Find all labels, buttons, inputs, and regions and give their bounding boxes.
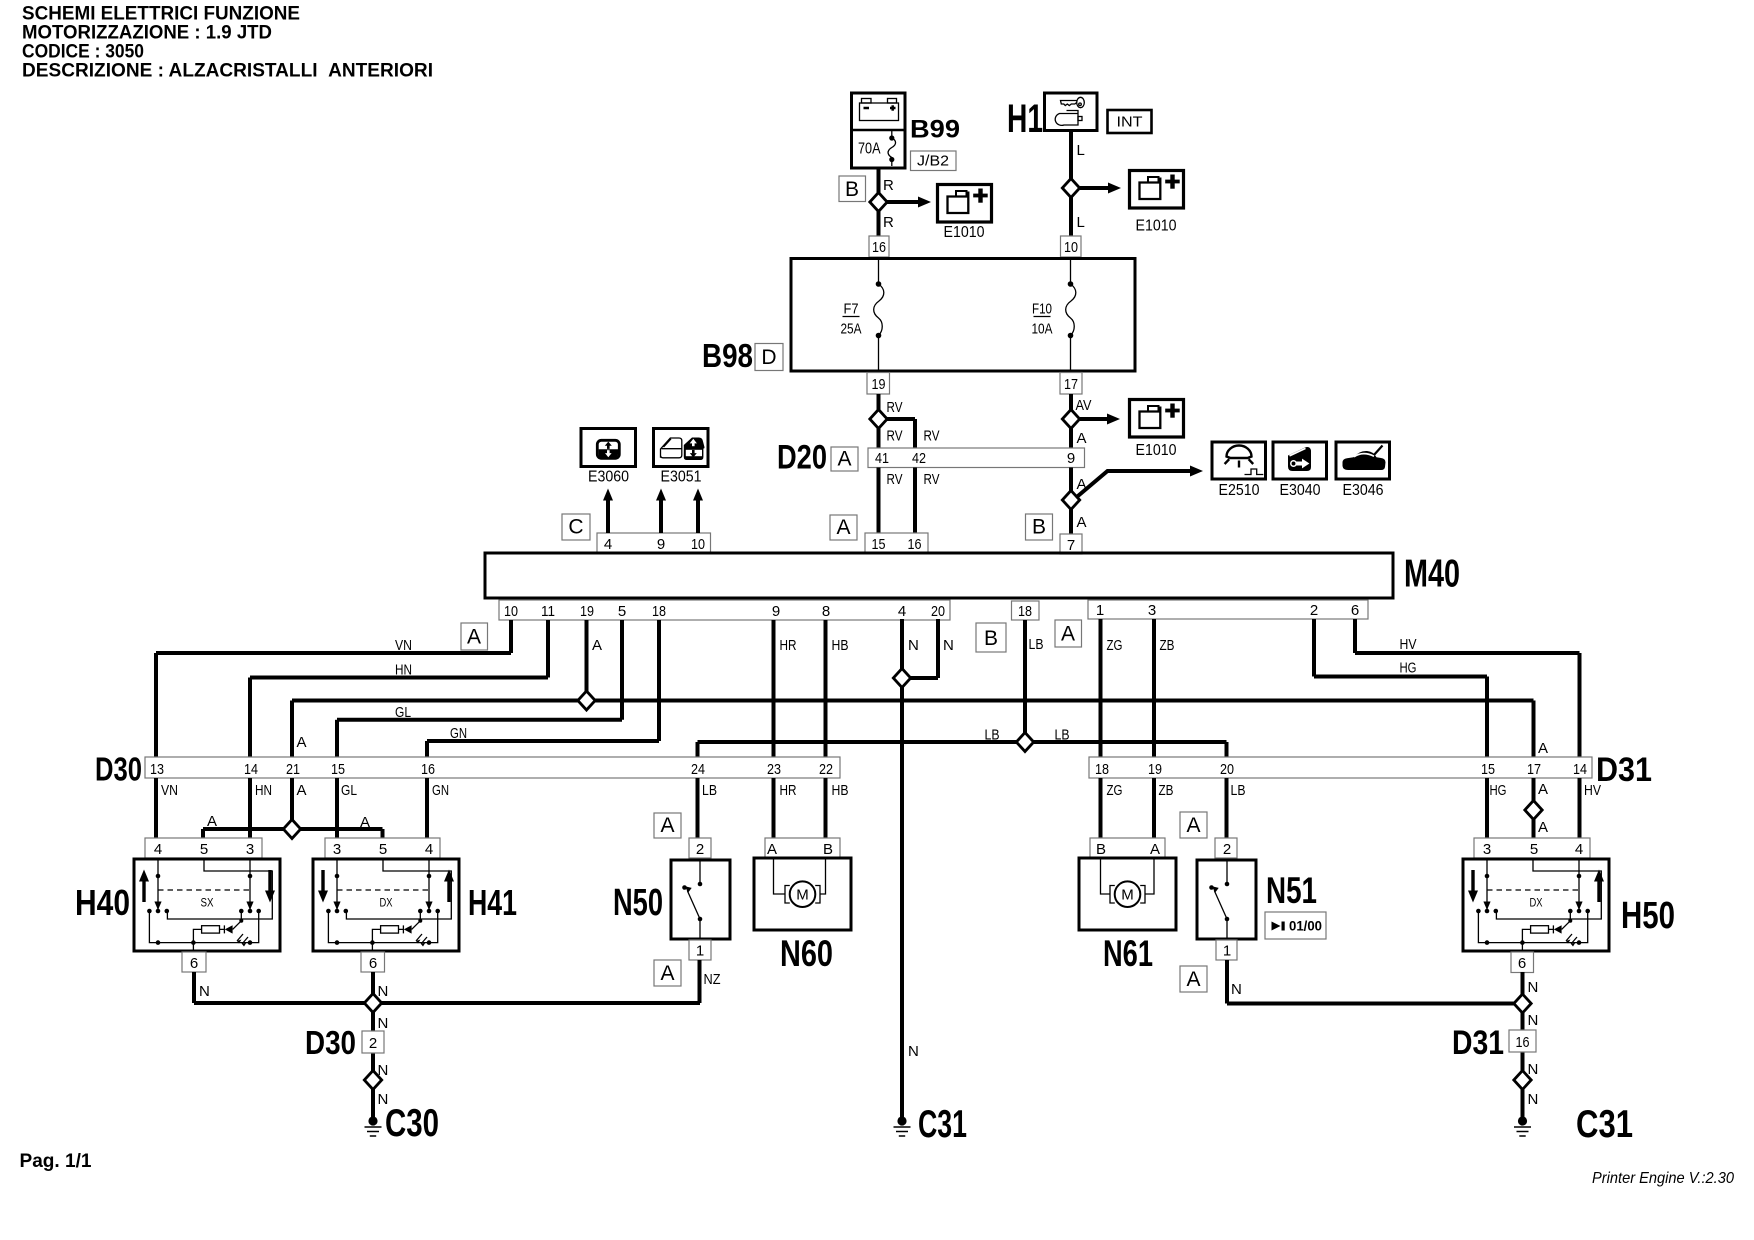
svg-text:H1: H1	[1007, 97, 1043, 141]
svg-text:N: N	[1528, 1012, 1539, 1029]
svg-text:LB: LB	[1055, 727, 1070, 744]
svg-text:A: A	[1150, 841, 1160, 858]
svg-text:HR: HR	[780, 637, 797, 654]
svg-text:HN: HN	[255, 782, 272, 799]
svg-text:B: B	[845, 178, 859, 201]
svg-text:HR: HR	[780, 782, 797, 799]
svg-text:16: 16	[421, 761, 435, 778]
svg-text:LB: LB	[1029, 636, 1044, 653]
svg-text:N: N	[943, 637, 954, 654]
svg-text:ZB: ZB	[1159, 782, 1174, 799]
svg-text:C: C	[568, 516, 583, 539]
svg-text:E1010: E1010	[1136, 218, 1177, 235]
svg-text:18: 18	[1018, 603, 1032, 620]
svg-text:16: 16	[872, 239, 886, 256]
svg-text:10: 10	[691, 536, 705, 553]
svg-text:DX: DX	[380, 896, 393, 910]
svg-text:13: 13	[150, 761, 164, 778]
svg-text:N: N	[1528, 1091, 1539, 1108]
svg-text:E1010: E1010	[944, 224, 985, 241]
svg-text:5: 5	[379, 841, 387, 858]
svg-text:01/00: 01/00	[1289, 918, 1322, 934]
svg-text:SX: SX	[201, 896, 214, 910]
svg-text:B99: B99	[910, 116, 960, 144]
svg-text:6: 6	[1351, 602, 1359, 619]
svg-text:3: 3	[1483, 841, 1491, 858]
svg-text:A: A	[1538, 781, 1548, 798]
svg-text:4: 4	[604, 536, 612, 553]
svg-text:A: A	[660, 962, 674, 985]
svg-text:D30: D30	[305, 1024, 356, 1061]
svg-text:M: M	[1121, 887, 1134, 904]
svg-text:15: 15	[872, 536, 886, 553]
svg-text:A: A	[767, 841, 777, 858]
svg-text:A: A	[467, 626, 481, 649]
svg-text:9: 9	[772, 603, 780, 620]
svg-text:E3060: E3060	[588, 469, 629, 486]
svg-text:D31: D31	[1452, 1024, 1504, 1062]
svg-text:B: B	[1032, 516, 1046, 539]
svg-text:N: N	[378, 1015, 389, 1032]
svg-text:14: 14	[244, 761, 258, 778]
svg-text:H41: H41	[468, 882, 517, 923]
svg-text:18: 18	[1095, 761, 1109, 778]
svg-text:RV: RV	[887, 399, 903, 416]
svg-text:SCHEMI ELETTRICI FUNZIONE: SCHEMI ELETTRICI FUNZIONE	[22, 4, 300, 25]
svg-text:9: 9	[657, 536, 665, 553]
svg-text:11: 11	[541, 603, 555, 620]
svg-text:10A: 10A	[1032, 321, 1053, 338]
svg-text:3: 3	[246, 841, 254, 858]
svg-text:2: 2	[369, 1035, 377, 1052]
svg-text:A: A	[836, 516, 850, 539]
svg-text:A: A	[1077, 430, 1087, 447]
svg-text:18: 18	[652, 603, 666, 620]
svg-text:RV: RV	[924, 471, 940, 488]
svg-text:DESCRIZIONE : ALZACRISTALLI A: DESCRIZIONE : ALZACRISTALLI ANTERIORI	[22, 61, 433, 82]
svg-text:1: 1	[1096, 602, 1104, 619]
svg-text:N: N	[1528, 979, 1539, 996]
svg-text:A: A	[297, 782, 307, 799]
svg-text:23: 23	[767, 761, 781, 778]
svg-text:L: L	[1077, 214, 1085, 231]
svg-text:DX: DX	[1530, 896, 1543, 910]
svg-text:6: 6	[369, 955, 377, 972]
svg-text:VN: VN	[395, 637, 412, 654]
svg-text:F7: F7	[844, 301, 859, 318]
svg-text:N: N	[199, 983, 210, 1000]
svg-text:4: 4	[898, 603, 906, 620]
svg-text:A: A	[1538, 740, 1548, 757]
svg-text:B: B	[1096, 841, 1106, 858]
svg-text:17: 17	[1064, 376, 1078, 393]
svg-text:B: B	[984, 627, 998, 650]
svg-text:MOTORIZZAZIONE : 1.9 JTD: MOTORIZZAZIONE : 1.9 JTD	[22, 23, 272, 44]
svg-text:70A: 70A	[858, 141, 881, 158]
svg-text:C30: C30	[385, 1102, 439, 1145]
svg-text:10: 10	[504, 603, 518, 620]
svg-text:C31: C31	[1576, 1103, 1633, 1146]
svg-text:M40: M40	[1404, 553, 1460, 596]
svg-text:A: A	[1186, 814, 1200, 837]
svg-text:10: 10	[1064, 239, 1078, 256]
svg-text:5: 5	[618, 603, 626, 620]
svg-text:7: 7	[1067, 537, 1075, 554]
svg-text:16: 16	[1516, 1034, 1530, 1051]
svg-text:C31: C31	[918, 1103, 967, 1146]
svg-text:N61: N61	[1103, 933, 1153, 974]
svg-text:42: 42	[912, 450, 926, 467]
svg-text:6: 6	[1518, 955, 1526, 972]
svg-text:5: 5	[200, 841, 208, 858]
svg-text:N: N	[378, 983, 389, 1000]
svg-text:H40: H40	[75, 882, 130, 923]
svg-text:A: A	[1077, 514, 1087, 531]
svg-text:H50: H50	[1621, 895, 1675, 937]
svg-text:HG: HG	[1400, 660, 1417, 677]
svg-text:N: N	[1528, 1061, 1539, 1078]
svg-text:25A: 25A	[841, 321, 862, 338]
svg-text:L: L	[1077, 142, 1085, 159]
svg-text:E2510: E2510	[1219, 482, 1260, 499]
svg-text:15: 15	[331, 761, 345, 778]
svg-text:1: 1	[696, 943, 704, 960]
svg-text:A: A	[660, 814, 674, 837]
svg-text:RV: RV	[887, 471, 903, 488]
svg-text:4: 4	[1575, 841, 1583, 858]
svg-text:16: 16	[908, 536, 922, 553]
svg-text:22: 22	[819, 761, 833, 778]
svg-text:D: D	[761, 346, 776, 369]
svg-text:B98: B98	[702, 337, 753, 374]
svg-text:6: 6	[190, 955, 198, 972]
svg-text:24: 24	[691, 761, 705, 778]
svg-text:RV: RV	[924, 428, 940, 445]
svg-text:N: N	[908, 637, 919, 654]
svg-text:A: A	[837, 448, 851, 471]
svg-text:N50: N50	[613, 882, 663, 924]
svg-text:M: M	[796, 887, 809, 904]
svg-text:A: A	[592, 637, 602, 654]
svg-text:N: N	[1231, 981, 1242, 998]
svg-text:E3040: E3040	[1280, 482, 1321, 499]
svg-text:E3051: E3051	[661, 469, 702, 486]
svg-text:CODICE : 3050: CODICE : 3050	[22, 42, 144, 63]
svg-text:E1010: E1010	[1136, 442, 1177, 459]
svg-text:20: 20	[931, 603, 945, 620]
svg-text:19: 19	[872, 376, 886, 393]
svg-text:3: 3	[1148, 602, 1156, 619]
svg-text:A: A	[1538, 819, 1548, 836]
svg-text:15: 15	[1481, 761, 1495, 778]
svg-text:2: 2	[696, 841, 704, 858]
svg-text:A: A	[207, 813, 217, 830]
svg-text:9: 9	[1067, 450, 1075, 467]
svg-text:A: A	[1061, 623, 1075, 646]
svg-text:D30: D30	[95, 751, 142, 788]
svg-text:2: 2	[1310, 602, 1318, 619]
svg-text:D31: D31	[1596, 751, 1652, 789]
svg-text:GN: GN	[450, 725, 467, 742]
svg-text:GL: GL	[341, 782, 357, 799]
svg-text:HB: HB	[832, 782, 849, 799]
svg-text:RV: RV	[887, 428, 903, 445]
svg-text:8: 8	[822, 603, 830, 620]
svg-text:VN: VN	[161, 782, 178, 799]
svg-text:Pag. 1/1: Pag. 1/1	[20, 1151, 92, 1172]
svg-text:21: 21	[286, 761, 300, 778]
svg-text:5: 5	[1530, 841, 1538, 858]
svg-text:19: 19	[1148, 761, 1162, 778]
svg-text:LB: LB	[702, 782, 717, 799]
svg-text:A: A	[297, 734, 307, 751]
svg-text:4: 4	[154, 841, 162, 858]
svg-text:F10: F10	[1032, 301, 1052, 318]
svg-text:ZG: ZG	[1107, 782, 1123, 799]
svg-text:A: A	[360, 814, 370, 831]
svg-text:2: 2	[1223, 841, 1231, 858]
svg-text:D20: D20	[777, 439, 827, 477]
svg-text:N51: N51	[1266, 870, 1317, 911]
svg-text:GL: GL	[395, 704, 411, 721]
svg-text:LB: LB	[1231, 782, 1246, 799]
svg-text:Printer Engine V.:2.30: Printer Engine V.:2.30	[1592, 1170, 1734, 1187]
svg-text:LB: LB	[985, 727, 1000, 744]
svg-text:41: 41	[875, 450, 889, 467]
svg-text:ZG: ZG	[1107, 637, 1123, 654]
svg-text:R: R	[883, 177, 894, 194]
svg-text:17: 17	[1527, 761, 1541, 778]
svg-text:19: 19	[580, 603, 594, 620]
svg-text:R: R	[883, 214, 894, 231]
svg-text:4: 4	[425, 841, 433, 858]
svg-text:N60: N60	[780, 933, 833, 974]
svg-text:AV: AV	[1076, 397, 1092, 414]
svg-text:E3046: E3046	[1343, 482, 1384, 499]
svg-text:HV: HV	[1400, 636, 1417, 653]
svg-text:HN: HN	[395, 662, 412, 679]
svg-text:B: B	[823, 841, 833, 858]
svg-text:HB: HB	[832, 637, 849, 654]
svg-text:1: 1	[1223, 943, 1231, 960]
svg-text:14: 14	[1573, 761, 1587, 778]
svg-text:J/B2: J/B2	[917, 153, 949, 170]
svg-text:20: 20	[1220, 761, 1234, 778]
svg-text:HG: HG	[1490, 782, 1507, 799]
svg-text:N: N	[908, 1043, 919, 1060]
svg-text:GN: GN	[432, 782, 449, 799]
svg-text:HV: HV	[1584, 782, 1601, 799]
svg-text:A: A	[1186, 968, 1200, 991]
svg-text:ZB: ZB	[1160, 637, 1175, 654]
svg-text:INT: INT	[1117, 114, 1143, 131]
svg-text:3: 3	[333, 841, 341, 858]
svg-text:NZ: NZ	[704, 971, 721, 988]
